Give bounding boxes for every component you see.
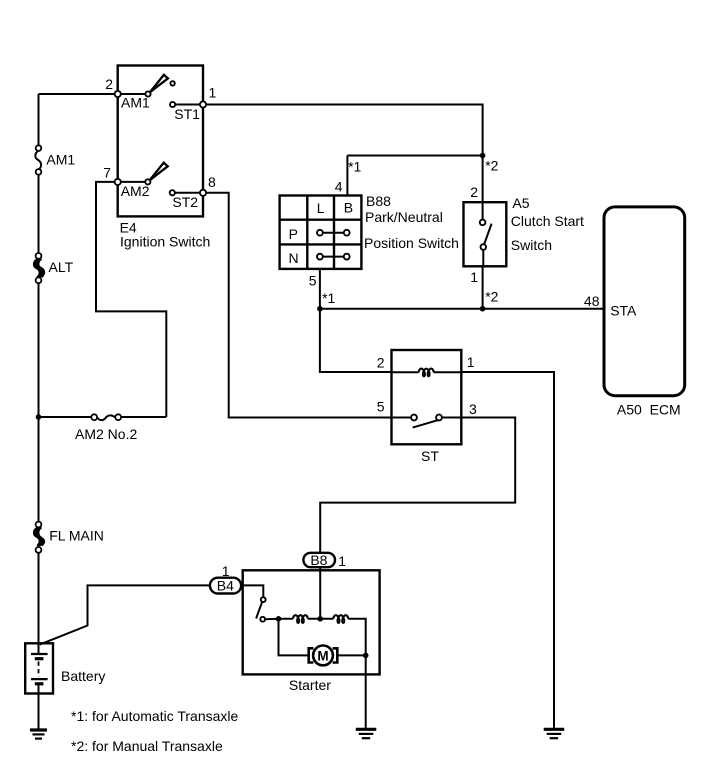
ignition terminal 2 bbox=[115, 91, 121, 97]
svg-text:ST2: ST2 bbox=[172, 194, 198, 210]
starter coil 1 bbox=[293, 615, 308, 623]
wire pin2 to left rail bbox=[39, 93, 118, 95]
wire ST2 pin8 to relay pin5 bbox=[203, 193, 392, 418]
svg-text:A5: A5 bbox=[512, 195, 529, 211]
node junction *2 top bbox=[480, 153, 486, 159]
svg-text:Park/Neutral: Park/Neutral bbox=[365, 209, 443, 225]
ignition ST1 contact bbox=[170, 102, 175, 107]
svg-text:1: 1 bbox=[222, 563, 230, 579]
svg-text:AM2: AM2 bbox=[121, 183, 150, 199]
svg-text:*2: for Manual Transaxle: *2: for Manual Transaxle bbox=[71, 738, 223, 754]
ignition AM1 contact bbox=[145, 91, 150, 96]
svg-text:1: 1 bbox=[470, 269, 478, 285]
svg-text:N: N bbox=[288, 250, 298, 266]
node junction *1 mid bbox=[317, 306, 323, 312]
wire to clutch pin2 bbox=[482, 156, 484, 203]
svg-text:Battery: Battery bbox=[61, 668, 105, 684]
wire P/N pin5 down to junction and relay pin2 bbox=[320, 269, 392, 372]
park/neutral switch B88 box bbox=[280, 196, 362, 269]
node AM2 No.2 junction bbox=[36, 414, 42, 420]
ignition AM2 lever bbox=[150, 163, 168, 181]
svg-text:B8: B8 bbox=[310, 552, 327, 568]
svg-text:*1: *1 bbox=[348, 159, 361, 175]
starter coil row wires bbox=[265, 619, 366, 656]
clutch start switch A5 box bbox=[464, 202, 507, 266]
svg-text:AM1: AM1 bbox=[46, 152, 75, 168]
park/neutral P row contact bbox=[317, 230, 350, 236]
svg-text:4: 4 bbox=[335, 179, 343, 195]
svg-text:2: 2 bbox=[105, 76, 113, 92]
wire *1/*2 branch row bbox=[347, 155, 482, 157]
svg-text:P: P bbox=[289, 226, 298, 242]
svg-text:3: 3 bbox=[469, 401, 477, 417]
ignition terminal 1 bbox=[200, 101, 206, 107]
ignition AM1 lever bbox=[150, 75, 168, 93]
battery internals bbox=[31, 643, 48, 693]
relay contact lever bbox=[413, 420, 439, 428]
ignition terminal 7 bbox=[115, 179, 121, 185]
node junction *2 mid bbox=[480, 306, 486, 312]
svg-text:1: 1 bbox=[209, 85, 217, 101]
relay coil wire bbox=[392, 371, 462, 373]
wire battery to ground bbox=[38, 694, 40, 730]
svg-text:FL MAIN: FL MAIN bbox=[49, 528, 104, 544]
svg-text:Starter: Starter bbox=[289, 677, 331, 693]
svg-text:B: B bbox=[344, 200, 353, 216]
relay contact left bbox=[411, 415, 417, 421]
relay ST box bbox=[392, 350, 462, 444]
wire AM2 No.2 fuse row bbox=[39, 416, 167, 418]
wire left rail between AM1 and ALT bbox=[38, 174, 40, 253]
wire pin7 routing bbox=[96, 182, 166, 417]
fusible link ALT bbox=[34, 253, 44, 283]
wire relay pin3 to B8 bbox=[320, 418, 515, 553]
svg-text:2: 2 bbox=[377, 355, 385, 371]
starter switch contact bottom bbox=[260, 617, 265, 622]
wire ST1 pin1 top run bbox=[203, 105, 483, 156]
wire left rail FL MAIN to battery bbox=[38, 552, 40, 643]
battery box bbox=[25, 643, 53, 693]
wire left rail between ALT and FL MAIN bbox=[38, 283, 40, 522]
svg-text:Ignition Switch: Ignition Switch bbox=[120, 234, 210, 250]
svg-text:STA: STA bbox=[610, 303, 637, 319]
wire STA row to ECM pin48 bbox=[320, 308, 604, 310]
wire relay pin1 to right rail and ground bbox=[461, 372, 554, 728]
svg-text:1: 1 bbox=[338, 553, 346, 569]
ignition ST2 wire bbox=[175, 192, 203, 194]
svg-text:2: 2 bbox=[470, 184, 478, 200]
park/neutral grid lines bbox=[280, 196, 362, 269]
starter switch feed wire bbox=[243, 585, 264, 597]
svg-text:*2: *2 bbox=[485, 158, 498, 174]
clutch switch contact top bbox=[480, 220, 486, 226]
ground ECM relay rail bbox=[544, 729, 565, 738]
ignition ST2 contact bbox=[170, 190, 175, 195]
ground battery bbox=[30, 730, 47, 739]
svg-text:AM2 No.2: AM2 No.2 bbox=[75, 426, 137, 442]
svg-text:5: 5 bbox=[377, 399, 385, 415]
wire to P/N pin4 bbox=[346, 156, 348, 197]
svg-text:ST: ST bbox=[421, 448, 439, 464]
relay contact wire bbox=[392, 417, 462, 419]
park/neutral N row contact bbox=[317, 254, 350, 260]
svg-text:M: M bbox=[317, 648, 328, 663]
starter box bbox=[243, 570, 380, 674]
clutch switch lever bbox=[484, 224, 491, 244]
svg-text:B88: B88 bbox=[366, 193, 391, 209]
svg-text:B4: B4 bbox=[217, 578, 234, 594]
svg-text:*1: *1 bbox=[322, 290, 335, 306]
relay coil bbox=[419, 369, 434, 377]
starter coil 2 bbox=[333, 615, 348, 623]
svg-text:A50 ECM: A50 ECM bbox=[617, 402, 681, 418]
node starter junction left bbox=[276, 616, 282, 622]
wire B4 to battery bbox=[40, 585, 210, 644]
svg-text:AM1: AM1 bbox=[121, 95, 150, 111]
wire starter motor branch bbox=[279, 619, 366, 656]
svg-text:Clutch Start: Clutch Start bbox=[511, 213, 584, 229]
svg-text:ST1: ST1 bbox=[174, 106, 200, 122]
fuse AM1 bbox=[35, 145, 41, 174]
node starter junction B8 bbox=[317, 616, 323, 622]
wire starter to ground bbox=[365, 655, 367, 728]
ignition AM1 pole wire bbox=[118, 93, 148, 95]
svg-text:*2: *2 bbox=[485, 289, 498, 305]
ignition switch E4 box bbox=[118, 66, 203, 217]
clutch switch wire stub bottom bbox=[482, 250, 484, 266]
fusible link FL MAIN bbox=[34, 522, 44, 553]
starter switch lever bbox=[256, 602, 262, 618]
connector B4 oval bbox=[210, 578, 241, 594]
connector B8 oval bbox=[303, 552, 335, 568]
svg-text:Position Switch: Position Switch bbox=[364, 235, 459, 251]
svg-text:8: 8 bbox=[208, 174, 216, 190]
clutch switch contact bottom bbox=[481, 244, 487, 250]
svg-text:1: 1 bbox=[467, 354, 475, 370]
svg-text:48: 48 bbox=[584, 293, 600, 309]
svg-text:Switch: Switch bbox=[511, 237, 552, 253]
ignition AM1 fixed contact bbox=[170, 81, 174, 85]
fuse AM2 No.2 bbox=[91, 414, 121, 420]
starter motor M bbox=[309, 646, 338, 666]
clutch switch wire stub top bbox=[482, 202, 484, 219]
svg-text:5: 5 bbox=[309, 273, 317, 289]
wire clutch pin1 down bbox=[482, 266, 484, 308]
ignition AM2 pole wire bbox=[118, 181, 148, 183]
ignition AM2 contact bbox=[145, 179, 150, 184]
node starter junction right bbox=[363, 653, 369, 659]
svg-text:*1: for Automatic Transaxle: *1: for Automatic Transaxle bbox=[71, 708, 239, 724]
ground starter bbox=[356, 729, 377, 738]
svg-text:7: 7 bbox=[103, 165, 111, 181]
starter switch contact top bbox=[261, 597, 266, 602]
svg-text:L: L bbox=[317, 200, 325, 216]
wire left rail top segment bbox=[38, 94, 40, 146]
ignition ST1 wire bbox=[175, 104, 203, 106]
ECM A50 box bbox=[604, 207, 685, 396]
relay contact right bbox=[436, 415, 442, 421]
wire B8 into starter bbox=[319, 567, 321, 619]
ignition terminal 8 bbox=[200, 190, 206, 196]
svg-text:ALT: ALT bbox=[49, 259, 74, 275]
